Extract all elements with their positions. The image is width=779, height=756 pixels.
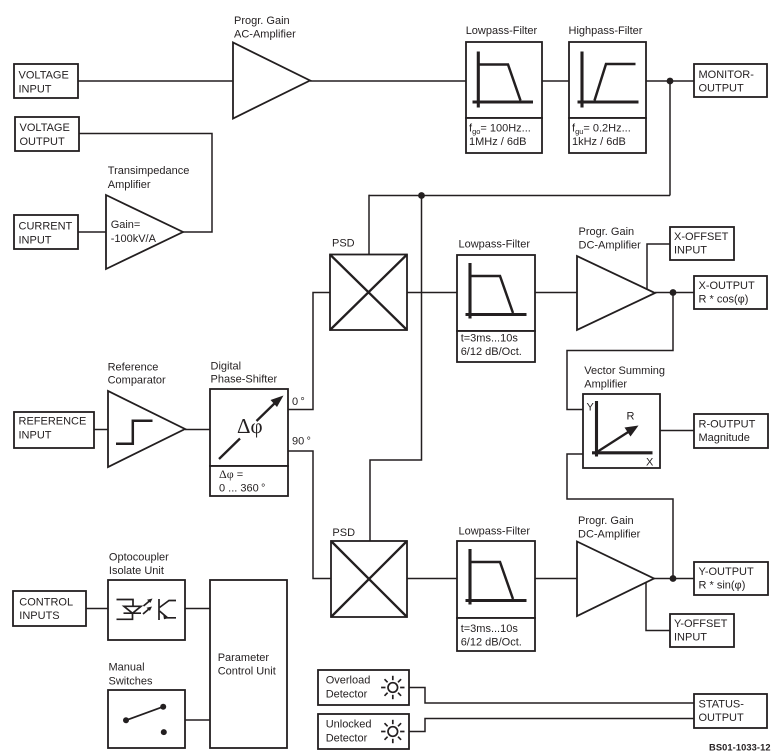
svg-text:Control Unit: Control Unit [218, 666, 276, 678]
svg-text:t=3ms...10s: t=3ms...10s [461, 623, 519, 635]
svg-text:Progr. Gain: Progr. Gain [234, 15, 290, 27]
svg-text:OUTPUT: OUTPUT [20, 136, 66, 148]
svg-text:Unlocked: Unlocked [326, 719, 372, 731]
label Optocoupler Isolate Unit [109, 552, 169, 578]
node X output junction [670, 289, 677, 296]
input box CONTROL INPUTS [13, 591, 86, 626]
transistor symbol transimpedance amplifier [106, 195, 183, 269]
wire down to upper PSD top [368, 195, 370, 255]
wire upper PSD to X lowpass [407, 292, 457, 294]
svg-text:REFERENCE: REFERENCE [19, 416, 87, 428]
wire AC amplifier to lowpass filter [310, 80, 466, 82]
svg-text:Y-OFFSET: Y-OFFSET [674, 618, 728, 630]
svg-text:STATUS-: STATUS- [699, 699, 745, 711]
wire manual switches to parameter control unit [185, 719, 210, 721]
wire vector summing to R output [660, 430, 694, 432]
svg-text:R: R [627, 411, 635, 423]
svg-text:Overload: Overload [326, 675, 371, 687]
wire Y lowpass to Y DC amplifier [535, 578, 577, 580]
comparator reference [108, 391, 185, 467]
label Progr. Gain DC-Amplifier X [579, 226, 642, 252]
svg-text:PSD: PSD [332, 238, 355, 250]
svg-text:Isolate Unit: Isolate Unit [109, 565, 164, 577]
wire voltage output to transimpedance amplifier output [79, 134, 212, 233]
svg-text:VOLTAGE: VOLTAGE [19, 70, 69, 82]
svg-text:6/12 dB/Oct.: 6/12 dB/Oct. [461, 637, 522, 649]
filter block Highpass-Filter [569, 42, 646, 153]
wire comparator to phase shifter [185, 429, 210, 431]
label Manual Switches [109, 662, 154, 688]
label Y Lowpass-Filter [459, 526, 531, 538]
svg-text:OUTPUT: OUTPUT [699, 83, 745, 95]
wire control inputs to optocoupler [86, 608, 108, 610]
svg-text:X-OUTPUT: X-OUTPUT [699, 280, 756, 292]
wire branch down to lower PSD [370, 196, 422, 542]
label Reference Comparator [108, 361, 166, 386]
input box REFERENCE INPUT [14, 412, 94, 448]
svg-text:INPUT: INPUT [19, 235, 52, 247]
svg-text:0 °: 0 ° [292, 396, 305, 408]
svg-text:Y: Y [587, 402, 595, 414]
svg-text:Progr. Gain: Progr. Gain [579, 226, 635, 238]
svg-text:Comparator: Comparator [108, 375, 166, 387]
label 90 degrees [292, 436, 311, 448]
svg-text:DC-Amplifier: DC-Amplifier [579, 240, 642, 252]
label drawing number BS01-1033-12 [709, 743, 771, 753]
optocoupler block [108, 580, 185, 640]
svg-text:X-OFFSET: X-OFFSET [674, 231, 729, 243]
svg-text:0 ... 360 °: 0 ... 360 ° [219, 483, 265, 495]
svg-text:Detector: Detector [326, 733, 368, 745]
svg-text:CONTROL: CONTROL [19, 597, 73, 609]
label 0 degrees [292, 396, 305, 408]
wire overload detector to status output [409, 688, 694, 704]
svg-text:R * cos(φ): R * cos(φ) [699, 294, 749, 306]
svg-text:1MHz / 6dB: 1MHz / 6dB [469, 136, 526, 148]
output box STATUS-OUTPUT [694, 694, 767, 728]
wire Y DC amplifier to Y output [654, 578, 694, 580]
wire 90 degree output to lower PSD left [288, 451, 331, 579]
svg-text:1kHz / 6dB: 1kHz / 6dB [572, 136, 626, 148]
svg-text:Gain=: Gain= [111, 219, 141, 231]
svg-text:INPUT: INPUT [19, 430, 52, 442]
node Y output junction [670, 575, 677, 582]
input box VOLTAGE INPUT [14, 64, 78, 98]
svg-text:Digital: Digital [211, 361, 242, 373]
svg-text:Magnitude: Magnitude [699, 432, 750, 444]
label Lowpass-Filter top [466, 25, 538, 37]
input box CURRENT INPUT [14, 215, 78, 249]
svg-text:X: X [646, 457, 654, 469]
label Digital Phase-Shifter [211, 361, 278, 386]
op-amp AC-Amplifier [233, 43, 310, 119]
svg-text:Parameter: Parameter [218, 652, 270, 664]
svg-text:OUTPUT: OUTPUT [699, 712, 745, 724]
svg-text:Vector Summing: Vector Summing [584, 365, 665, 377]
wire highpass to monitor output [646, 80, 694, 82]
detector block Unlocked Detector [318, 714, 409, 749]
wire X offset input to amplifier [647, 244, 670, 289]
op-amp Y DC-Amplifier [577, 542, 654, 617]
parameter control unit block [210, 580, 287, 748]
svg-text:90 °: 90 ° [292, 436, 311, 448]
svg-text:PSD: PSD [332, 527, 355, 539]
detector block Overload Detector [318, 670, 409, 705]
input box Y-OFFSET INPUT [670, 614, 734, 647]
svg-text:Lowpass-Filter: Lowpass-Filter [459, 526, 531, 538]
label Highpass-Filter [569, 25, 643, 37]
phase shifter block Digital Phase-Shifter [210, 389, 288, 496]
wire X lowpass to X DC amplifier [535, 292, 577, 294]
wire signal distribution horizontal [369, 195, 670, 197]
svg-text:INPUT: INPUT [674, 632, 707, 644]
node signal branch junction [418, 192, 425, 199]
svg-text:Detector: Detector [326, 689, 368, 701]
svg-text:BS01-1033-12: BS01-1033-12 [709, 743, 771, 753]
label PSD lower [332, 527, 355, 539]
wire voltage input to AC amplifier [78, 80, 233, 82]
svg-text:Amplifier: Amplifier [108, 179, 151, 191]
svg-text:Amplifier: Amplifier [584, 379, 627, 391]
svg-text:Phase-Shifter: Phase-Shifter [211, 374, 278, 386]
input box VOLTAGE OUTPUT [15, 117, 79, 151]
label Progr. Gain DC-Amplifier Y [578, 515, 641, 541]
svg-text:Lowpass-Filter: Lowpass-Filter [466, 25, 538, 37]
svg-text:t=3ms...10s: t=3ms...10s [461, 333, 519, 345]
svg-text:CURRENT: CURRENT [19, 221, 73, 233]
svg-text:6/12 dB/Oct.: 6/12 dB/Oct. [461, 346, 522, 358]
svg-text:-100kV/A: -100kV/A [111, 233, 157, 245]
filter block Y Lowpass-Filter [457, 541, 535, 651]
output box MONITOR-OUTPUT [694, 64, 767, 97]
svg-text:Transimpedance: Transimpedance [108, 165, 190, 177]
wire monitor junction down [669, 81, 671, 196]
wire current input to transimpedance amplifier [78, 231, 106, 233]
svg-text:Switches: Switches [109, 676, 154, 688]
wire 0 degree output to upper PSD left [288, 293, 330, 410]
svg-text:R-OUTPUT: R-OUTPUT [699, 419, 756, 431]
svg-text:MONITOR-: MONITOR- [699, 69, 755, 81]
svg-text:Manual: Manual [109, 662, 145, 674]
wire lowpass to highpass filter [542, 80, 569, 82]
manual switches block [108, 690, 185, 748]
label Vector Summing Amplifier [584, 365, 665, 391]
svg-text:Y-OUTPUT: Y-OUTPUT [699, 566, 754, 578]
filter block X Lowpass-Filter [457, 255, 535, 362]
node monitor junction [667, 78, 674, 85]
multiplier lower PSD [331, 541, 407, 617]
wire Y output to vector summing lower input [567, 454, 673, 579]
wire reference input to comparator [94, 429, 108, 431]
multiplier upper PSD [330, 255, 407, 331]
label Progr. Gain AC-Amplifier [234, 15, 296, 41]
wire Y offset input to amplifier [646, 583, 670, 631]
label Transimpedance Amplifier [108, 165, 190, 191]
svg-text:VOLTAGE: VOLTAGE [20, 122, 70, 134]
svg-text:R * sin(φ): R * sin(φ) [699, 580, 746, 592]
wire X output to vector summing upper input [567, 293, 673, 410]
svg-text:INPUTS: INPUTS [19, 610, 59, 622]
svg-text:Optocoupler: Optocoupler [109, 552, 169, 564]
svg-text:Δφ =: Δφ = [219, 467, 243, 481]
vector summing amplifier block [583, 394, 660, 469]
svg-text:INPUT: INPUT [19, 84, 52, 96]
output box R-OUTPUT [694, 414, 768, 448]
label PSD upper [332, 238, 355, 250]
wire optocoupler to parameter control unit [185, 608, 210, 610]
wire X DC amplifier to X output [655, 292, 694, 294]
svg-text:Lowpass-Filter: Lowpass-Filter [459, 239, 531, 251]
label X Lowpass-Filter [459, 239, 531, 251]
output box X-OUTPUT [694, 276, 767, 309]
input box X-OFFSET INPUT [670, 227, 734, 260]
svg-text:AC-Amplifier: AC-Amplifier [234, 29, 296, 41]
wire unlocked detector to status output [409, 719, 694, 732]
output box Y-OUTPUT [694, 562, 768, 595]
op-amp X DC-Amplifier [577, 256, 655, 330]
svg-text:Highpass-Filter: Highpass-Filter [569, 25, 643, 37]
filter block Lowpass-Filter top [466, 42, 542, 153]
wire lower PSD to Y lowpass [407, 578, 457, 580]
svg-text:DC-Amplifier: DC-Amplifier [578, 529, 641, 541]
svg-text:INPUT: INPUT [674, 245, 707, 257]
svg-text:Reference: Reference [108, 361, 159, 373]
svg-text:Progr. Gain: Progr. Gain [578, 515, 634, 527]
